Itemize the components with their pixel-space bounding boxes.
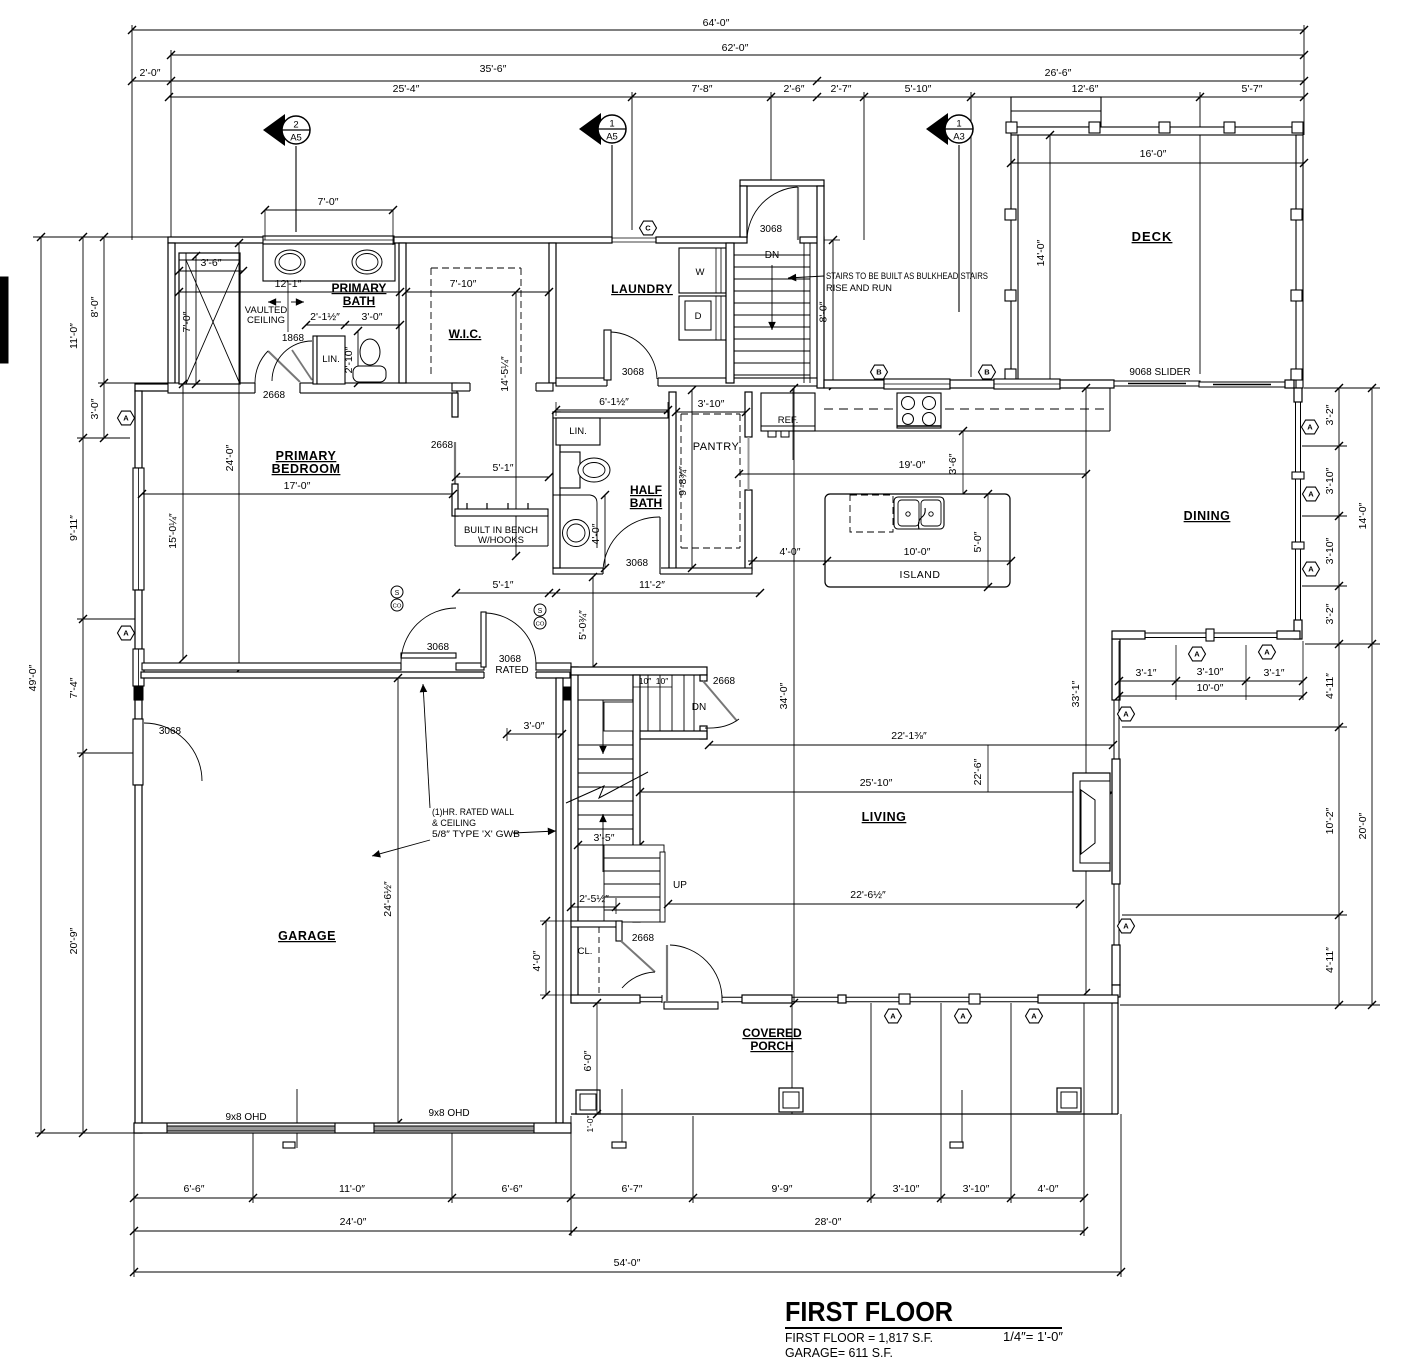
svg-text:A: A: [123, 414, 129, 423]
wall section block left: [134, 687, 143, 700]
dim row 24'-0" / 28'-0": [134, 1230, 1084, 1232]
deck top rail: [1011, 127, 1303, 135]
svg-text:A: A: [1194, 650, 1200, 659]
svg-text:3'-1″: 3'-1″: [1264, 667, 1285, 679]
svg-text:4'-11″: 4'-11″: [1324, 673, 1336, 699]
dim 5'-0 3/4" hall: [592, 577, 594, 667]
door 3068 mudroom arc: [747, 187, 798, 240]
svg-text:A: A: [960, 1012, 966, 1021]
bench hooks: [466, 503, 468, 509]
garage door 9x8 OHD right: [374, 1126, 534, 1131]
wall bedroom south: [142, 663, 401, 670]
dishwasher dashed: [850, 495, 893, 532]
svg-text:A5: A5: [606, 132, 618, 143]
leader arrow to garage north wall: [423, 684, 430, 808]
dim 8'-0" / 3'-0" left: [103, 237, 105, 438]
svg-text:2'-7″: 2'-7″: [831, 83, 852, 95]
svg-text:3'-5″: 3'-5″: [594, 832, 615, 844]
hexagon A porch 1: [885, 1009, 902, 1023]
porch slab joint line: [791, 1003, 793, 1114]
svg-text:10″: 10″: [639, 676, 651, 686]
stair lower UP flight: [604, 845, 664, 922]
svg-text:7'-8″: 7'-8″: [692, 83, 713, 95]
svg-text:3'-1″: 3'-1″: [1136, 667, 1157, 679]
wall bath/WIC divider: [399, 243, 406, 383]
door 1868 arc: [272, 341, 312, 381]
vanity counter: [263, 244, 395, 281]
shower 3'-6" x 7'-0": [179, 253, 240, 384]
window porch 6: [980, 996, 1038, 998]
door 2668 bedroom leaf: [454, 442, 456, 484]
door 3068 hall arc: [401, 608, 456, 663]
dim nook 3'-1" 3'-10" 3'-1": [1119, 680, 1303, 682]
svg-text:W.I.C.: W.I.C.: [449, 327, 482, 341]
window porch 1: [640, 996, 662, 998]
door 3068 garage left leaf: [133, 719, 143, 785]
slider 9068: [1114, 381, 1200, 386]
svg-text:LIN.: LIN.: [569, 426, 586, 437]
dim 64'-0" overall top: [132, 29, 1304, 31]
door 2668 primary bath arc: [255, 351, 268, 383]
dim 4'-0" half bath: [604, 495, 606, 568]
deck stair rectangle: [1011, 97, 1101, 127]
svg-text:9068 SLIDER: 9068 SLIDER: [1129, 367, 1190, 378]
svg-text:4'-0″: 4'-0″: [531, 950, 543, 971]
svg-text:34'-0″: 34'-0″: [778, 682, 790, 709]
porch post 3: [1057, 1088, 1081, 1112]
bulkhead stair treads: [734, 254, 810, 256]
door 3068 garage left arc: [144, 723, 202, 781]
wall half bath top: [553, 412, 668, 418]
dim 25'-10" living: [640, 791, 1112, 793]
svg-text:5'-10″: 5'-10″: [905, 83, 932, 95]
window mull 2: [1292, 542, 1304, 549]
svg-text:35'-6″: 35'-6″: [480, 63, 507, 75]
svg-text:3068: 3068: [499, 654, 522, 665]
svg-text:5'-0″: 5'-0″: [972, 531, 984, 552]
half bath counter: [553, 495, 597, 548]
svg-text:2668: 2668: [263, 390, 286, 401]
svg-text:1'-0″: 1'-0″: [585, 1116, 595, 1133]
fireplace outer: [1073, 773, 1110, 871]
svg-text:3068: 3068: [622, 367, 645, 378]
leader arrow to garage interior: [372, 840, 430, 856]
dim 24'-0" bedroom: [238, 243, 240, 670]
wall WIC/laundry divider: [549, 243, 556, 383]
svg-text:3'-6″: 3'-6″: [201, 257, 222, 269]
wall section bar far left: [0, 277, 8, 363]
svg-text:3'-6″: 3'-6″: [947, 453, 959, 474]
window above vanity: [263, 236, 394, 244]
svg-text:1/4″= 1'-0″: 1/4″= 1'-0″: [1003, 1329, 1063, 1344]
wall pantry right lower: [745, 490, 752, 570]
window porch 4: [846, 996, 899, 998]
svg-text:3'-10″: 3'-10″: [1324, 467, 1336, 494]
svg-text:8'-0″: 8'-0″: [818, 301, 830, 322]
dim 7'-0" vanity: [265, 209, 393, 211]
svg-text:4'-0″: 4'-0″: [590, 523, 602, 544]
porch post 2: [779, 1088, 803, 1112]
svg-text:DINING: DINING: [1184, 509, 1231, 523]
svg-text:BATH: BATH: [343, 294, 375, 308]
smoke/co detector hall 2: [534, 604, 546, 616]
kitchen counter end vertical: [1109, 388, 1111, 431]
wall left between windows: [135, 590, 142, 649]
nook extension lines: [1175, 645, 1177, 700]
svg-text:BEDROOM: BEDROOM: [272, 462, 341, 476]
window nook mull: [1206, 629, 1214, 641]
wall stair north: [571, 667, 707, 675]
wall laundry south: [556, 378, 817, 386]
dim row bottom 6'-6" 11'-0" 6'-6" 6'-7" 9'-9" 3'-10" 3'-10" 4'-0": [134, 1197, 1084, 1199]
wall bedroom east below door: [452, 484, 458, 516]
kitchen upper cabinets dashed: [824, 408, 893, 410]
vaulted ceiling arrows: [268, 301, 281, 303]
svg-text:11'-0″: 11'-0″: [339, 1183, 365, 1195]
svg-text:S: S: [538, 608, 543, 615]
extension lines left: [33, 236, 168, 238]
hexagon A living east 2: [1118, 919, 1135, 933]
svg-text:11'-0″: 11'-0″: [68, 323, 80, 349]
door 2668 stair arc: [705, 719, 739, 728]
dim 4'-0" closet: [545, 921, 547, 995]
svg-text:GARAGE: GARAGE: [278, 929, 336, 943]
wall dining east corner block: [1294, 388, 1302, 402]
svg-text:LIVING: LIVING: [862, 810, 907, 824]
svg-text:2'-5½″: 2'-5½″: [579, 893, 609, 905]
svg-text:UP: UP: [673, 880, 687, 891]
WIC closet dashed rod: [430, 268, 432, 378]
svg-text:28'-0″: 28'-0″: [815, 1216, 842, 1228]
svg-text:STAIRS TO BE BUILT AS BULKHEAD: STAIRS TO BE BUILT AS BULKHEAD STAIRS: [826, 271, 988, 282]
svg-text:2668: 2668: [632, 933, 655, 944]
svg-text:22'-1⅜″: 22'-1⅜″: [891, 730, 927, 742]
svg-text:DECK: DECK: [1132, 229, 1173, 244]
svg-text:RATED: RATED: [495, 665, 528, 676]
svg-text:3'-2″: 3'-2″: [1324, 404, 1336, 425]
garage door 9x8 OHD left: [167, 1126, 335, 1131]
half bath toilet tank: [560, 452, 580, 488]
deck left rail: [1011, 135, 1018, 385]
svg-text:2: 2: [293, 120, 298, 131]
dim 19'-0" kitchen: [739, 473, 1086, 475]
half bath toilet bowl: [578, 458, 610, 482]
wall laundry/stair divider: [726, 243, 734, 383]
window nook 2: [1214, 632, 1277, 634]
svg-text:1: 1: [609, 119, 614, 130]
svg-text:33'-1″: 33'-1″: [1070, 680, 1082, 707]
wall garage right: [556, 678, 563, 1123]
hexagon A living east 1: [1118, 707, 1135, 721]
dim 10" 10" treads: [633, 686, 672, 688]
svg-text:& CEILING: & CEILING: [432, 818, 476, 829]
dim 5'-1" hall lower / 11'-2": [456, 592, 760, 594]
svg-text:DN: DN: [765, 250, 779, 261]
dim 24'-6 1/2" garage: [397, 678, 399, 1123]
pantry shelves dashed: [681, 413, 740, 415]
dim 7'-10" WIC: [406, 291, 549, 293]
pantry door leaf: [748, 437, 750, 490]
dim 2'-5 1/2" closet: [571, 906, 616, 908]
front door leaf: [666, 945, 668, 1001]
door 2668 primary bath leaf: [268, 351, 300, 382]
dryer box: [679, 296, 726, 340]
svg-text:62'-0″: 62'-0″: [722, 42, 749, 54]
svg-text:A: A: [123, 629, 129, 638]
svg-text:20'-0″: 20'-0″: [1357, 812, 1369, 839]
front door arc: [670, 945, 722, 999]
svg-text:1: 1: [956, 119, 961, 130]
range stove: [897, 393, 941, 428]
dim 22'-1 3/8" living: [709, 744, 1113, 746]
wall living east block 1: [1112, 639, 1120, 700]
svg-text:W: W: [696, 267, 705, 278]
wall bedroom east corner top: [452, 393, 458, 417]
svg-text:3'-10″: 3'-10″: [1324, 537, 1336, 564]
kitchen counter edge: [761, 430, 1110, 432]
dim 9'-8 3/4" pantry: [691, 390, 693, 568]
svg-text:25'-4″: 25'-4″: [393, 83, 420, 95]
dim 14'-0" / 20'-0" right: [1371, 388, 1373, 1005]
closet CL walls: [571, 921, 622, 927]
dim 22'-6" note: [987, 745, 989, 792]
svg-text:7'-10″: 7'-10″: [450, 278, 477, 290]
garage door centerline marks: [296, 1089, 298, 1148]
svg-text:49'-0″: 49'-0″: [27, 664, 39, 691]
dim 6'-1 1/2" half bath: [556, 409, 668, 411]
wall step bedroom top-left: [135, 384, 175, 391]
svg-text:5'-7″: 5'-7″: [1242, 83, 1263, 95]
dim 49'-0" overall left: [40, 237, 42, 1133]
window porch 5: [910, 996, 969, 998]
wall bedroom/garage left upper: [135, 391, 142, 468]
svg-text:4'-11″: 4'-11″: [1324, 947, 1336, 973]
svg-text:CL.: CL.: [578, 946, 593, 957]
wall living east block 4: [1112, 985, 1120, 997]
svg-text:A: A: [1123, 710, 1129, 719]
door 3068 half bath leaf: [659, 517, 661, 571]
fireplace flue: [1081, 790, 1095, 854]
dim 2'-1 1/2" / 3'-0" toilet room: [306, 324, 400, 326]
window porch mull 1: [899, 994, 910, 1004]
svg-text:A: A: [1308, 490, 1314, 499]
svg-text:CO: CO: [536, 622, 545, 628]
note arrow to stairs: [788, 276, 824, 278]
svg-text:3'-10″: 3'-10″: [963, 1183, 990, 1195]
window dining east 3: [1295, 549, 1297, 620]
section marker 1/A5: [579, 113, 601, 145]
wall WIC south: [452, 383, 553, 391]
door 2668 stair leaf: [703, 681, 737, 721]
stair stringer wall: [633, 675, 640, 922]
dim 15'-0 1/4" bedroom: [182, 384, 184, 659]
hexagon C: [640, 221, 657, 235]
svg-text:A: A: [1307, 423, 1313, 432]
dim 8'-0" stair: [832, 240, 834, 386]
stair landing inner: [604, 702, 633, 731]
stair treads left flight: [578, 744, 633, 746]
door 2668 closet leaf: [621, 941, 655, 972]
dim 54'-0" overall bottom: [134, 1271, 1121, 1273]
svg-text:19'-0″: 19'-0″: [899, 459, 926, 471]
dim 3'-6" shower: [179, 270, 243, 272]
stair treads upper DN: [647, 675, 649, 731]
extension lines bottom: [133, 1133, 135, 1277]
deck posts: [1006, 122, 1017, 133]
window kitchen 1: [884, 379, 950, 389]
dim 16'-0" deck: [1011, 162, 1304, 164]
svg-text:FIRST FLOOR = 1,817 S.F.: FIRST FLOOR = 1,817 S.F.: [785, 1330, 933, 1345]
svg-text:PRIMARY: PRIMARY: [332, 281, 387, 295]
svg-text:D: D: [695, 311, 702, 322]
svg-text:6'-7″: 6'-7″: [622, 1183, 643, 1195]
svg-text:3068: 3068: [626, 558, 649, 569]
wall section block garage NE: [563, 687, 572, 700]
hexagon A porch 3: [1026, 1009, 1043, 1023]
svg-text:4'-0″: 4'-0″: [780, 546, 801, 558]
svg-text:64'-0″: 64'-0″: [703, 17, 730, 29]
svg-text:22'-6″: 22'-6″: [972, 758, 984, 785]
wall dining east bottom block: [1294, 620, 1302, 639]
svg-text:9x8 OHD: 9x8 OHD: [428, 1108, 469, 1119]
svg-text:REF.: REF.: [778, 415, 799, 426]
wall living east fireplace block: [1112, 759, 1120, 884]
closet dashed line: [598, 927, 600, 995]
dim 12'-1" bath: [179, 291, 400, 293]
svg-text:11'-2″: 11'-2″: [639, 579, 665, 591]
dim 3'-6" counter to island: [962, 431, 964, 494]
stair arrow down: [602, 700, 604, 754]
wall pantry right: [745, 392, 752, 437]
dim 7'-0" shower: [195, 256, 197, 384]
door 3068 hall leaf: [401, 653, 456, 658]
svg-text:RISE AND RUN: RISE AND RUN: [826, 283, 892, 294]
front door threshold: [664, 1002, 718, 1009]
bulkhead stair arrow: [771, 265, 773, 330]
svg-text:2'-6″: 2'-6″: [784, 83, 805, 95]
mudroom bumpout top wall: [740, 180, 824, 186]
svg-text:3'-10″: 3'-10″: [698, 398, 725, 410]
section marker 2/A5: [263, 114, 285, 146]
wall stair east upper: [700, 675, 707, 681]
porch slab edge: [571, 1113, 1118, 1115]
toilet primary bath: [360, 339, 380, 365]
svg-text:DN: DN: [692, 702, 706, 713]
door 3068 mudroom leaf: [797, 186, 799, 240]
svg-text:(1)HR. RATED WALL: (1)HR. RATED WALL: [432, 807, 514, 818]
svg-text:A: A: [1264, 648, 1270, 657]
stair newel: [660, 852, 665, 922]
wall hall south east: [536, 663, 571, 670]
svg-text:FIRST FLOOR: FIRST FLOOR: [785, 1296, 953, 1327]
wall bath-bedroom double: [168, 383, 457, 393]
wall half bath + pantry south: [553, 568, 752, 574]
wall kitchen north w/ windows: [824, 380, 884, 388]
svg-text:PRIMARY: PRIMARY: [276, 449, 337, 463]
svg-text:C: C: [645, 224, 651, 233]
wall porch block 4: [1038, 995, 1118, 1003]
svg-text:ISLAND: ISLAND: [900, 569, 941, 581]
wall garage north: [141, 672, 570, 678]
smoke/co detector hall 1: [391, 586, 403, 598]
svg-text:COVERED: COVERED: [742, 1026, 802, 1040]
dim 62'-0": [171, 54, 1304, 56]
svg-text:A: A: [890, 1012, 896, 1021]
sink left: [275, 250, 305, 274]
window porch mull 2: [969, 994, 980, 1004]
hexagon A left wall 1: [118, 411, 135, 425]
leader arrow to garage east wall: [513, 831, 556, 833]
svg-text:PORCH: PORCH: [750, 1039, 793, 1053]
wall segment dining NE: [1285, 380, 1294, 388]
bulkhead stair rail: [803, 243, 805, 383]
svg-text:6'-6″: 6'-6″: [502, 1183, 523, 1195]
extension lines top: [131, 25, 133, 240]
svg-text:16'-0″: 16'-0″: [1140, 148, 1167, 160]
svg-text:A: A: [1123, 922, 1129, 931]
svg-text:12'-6″: 12'-6″: [1072, 83, 1099, 95]
svg-text:CO: CO: [393, 604, 402, 610]
svg-text:3'-0″: 3'-0″: [362, 311, 383, 323]
svg-text:A3: A3: [953, 132, 965, 143]
stair break line: [566, 772, 648, 803]
svg-text:2'-0″: 2'-0″: [140, 67, 161, 79]
washer box: [679, 248, 726, 293]
kitchen ref side vertical: [792, 388, 794, 460]
wall top right of opening C: [656, 237, 747, 243]
window kitchen 2: [994, 379, 1060, 389]
wall porch block 2: [742, 995, 792, 1003]
window dining east 1: [1295, 402, 1297, 472]
svg-text:BATH: BATH: [630, 496, 662, 510]
svg-text:14'-0″: 14'-0″: [1035, 239, 1047, 266]
svg-text:A: A: [1308, 565, 1314, 574]
hexagon A nook 2: [1259, 645, 1276, 659]
svg-text:3'-0″: 3'-0″: [89, 398, 101, 419]
svg-text:20'-9″: 20'-9″: [68, 927, 80, 954]
svg-text:CEILING: CEILING: [247, 315, 285, 326]
wall living east block 3: [1112, 945, 1120, 985]
svg-text:3068: 3068: [427, 642, 450, 653]
window porch 3: [792, 996, 838, 998]
svg-text:14'-5¼″: 14'-5¼″: [499, 356, 511, 392]
svg-text:7'-0″: 7'-0″: [318, 196, 339, 208]
wall stair east below door: [700, 726, 707, 739]
svg-text:3'-2″: 3'-2″: [1324, 603, 1336, 624]
dim 33'-1" vertical: [1085, 388, 1087, 993]
dim 2'-10" toilet: [357, 331, 359, 383]
wall between hall doors: [456, 663, 484, 670]
svg-text:LAUNDRY: LAUNDRY: [611, 282, 673, 296]
wall bath block top: [168, 237, 612, 243]
svg-text:PANTRY: PANTRY: [693, 441, 740, 453]
svg-text:10″: 10″: [656, 676, 668, 686]
wall pantry left / half bath right: [669, 392, 676, 570]
svg-text:3'-10″: 3'-10″: [893, 1183, 920, 1195]
dim column 11'-0" 9'-11" 7'-4" 20'-9": [82, 237, 84, 1133]
hexagon A dining 3: [1303, 562, 1320, 576]
wall stair west: [571, 667, 578, 1003]
wall dining nook south east block: [1277, 631, 1300, 639]
linen closet half bath: [556, 418, 600, 445]
svg-text:A: A: [1031, 1012, 1037, 1021]
built-in bench: [455, 509, 548, 516]
svg-text:22'-6½″: 22'-6½″: [850, 889, 886, 901]
dim 14'-5 1/4" WIC: [515, 292, 517, 556]
wall east side of laundry block: [817, 186, 824, 388]
wall segment: [1060, 380, 1114, 388]
wall bath block left: [168, 243, 175, 384]
